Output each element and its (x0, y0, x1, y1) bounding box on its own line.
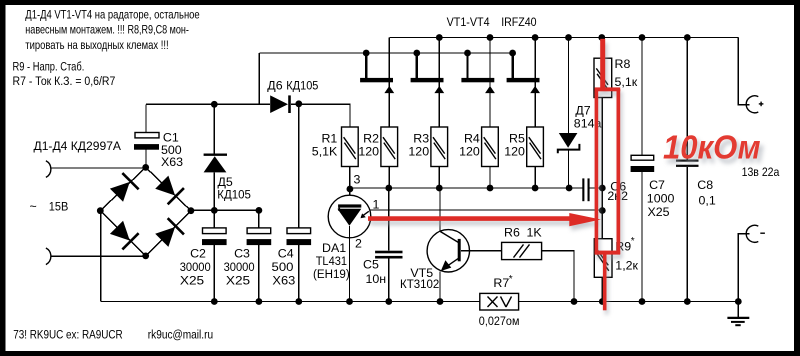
diode D5 (204, 155, 227, 173)
wire bottom ground rail right part (519, 301, 739, 303)
svg-text:120: 120 (358, 145, 379, 159)
wire C8 bottom lead (686, 167, 688, 302)
svg-text:5,1к: 5,1к (615, 75, 638, 89)
wire C4 top lead from D6 node (298, 104, 300, 228)
svg-text:2: 2 (355, 237, 362, 251)
svg-text:3: 3 (354, 172, 361, 186)
wire C6 right to R8R9 node (589, 187, 602, 189)
wire VT2 gate (416, 53, 418, 78)
node drain rail C7 (639, 34, 646, 41)
wire main rectified node y104 (146, 103, 270, 105)
node D6 cathode (295, 100, 302, 107)
svg-text:1: 1 (373, 197, 380, 211)
svg-text:R5: R5 (509, 132, 525, 146)
capacitor C2 (202, 228, 227, 245)
capacitor C1 (134, 133, 159, 150)
wire AC input top (51, 167, 146, 169)
svg-text:X25: X25 (648, 205, 670, 219)
wire C1 top lead (145, 104, 147, 132)
node ref rail VT5 base (436, 185, 443, 192)
node gate rail VT4 (509, 50, 516, 57)
node ref rail D7 (566, 185, 573, 192)
svg-text:(ЕН19): (ЕН19) (313, 267, 350, 281)
resistor R3 (431, 127, 448, 167)
node C3 top (256, 207, 263, 214)
node ref rail C5 (385, 185, 392, 192)
node drain rail C8 (684, 34, 691, 41)
wire VT4 source to R5 (534, 82, 536, 127)
wire R5 bottom (534, 167, 536, 189)
wire plus output (738, 38, 749, 105)
node bridge right (188, 207, 195, 214)
wire gate rail (259, 52, 512, 54)
svg-text:*: * (509, 274, 513, 285)
svg-text:IRFZ40: IRFZ40 (501, 15, 536, 29)
wire C8 top lead (686, 38, 688, 160)
wire VT4 gate (511, 53, 513, 78)
output terminal minus (746, 225, 765, 242)
svg-text:~: ~ (30, 200, 37, 214)
resistor R2 (381, 127, 398, 167)
svg-text:0,1: 0,1 (699, 194, 716, 208)
svg-text:КД105: КД105 (286, 78, 318, 92)
wire node3 rail (350, 187, 583, 189)
diode bridge D1-D4 (100, 167, 191, 256)
op-amp DA1 TL431 (328, 189, 371, 238)
svg-text:15В: 15В (49, 200, 69, 214)
node gnd VT5 (437, 298, 444, 305)
wire D6 cathode to R1 top (291, 104, 350, 127)
wire minus output (738, 234, 749, 302)
wire C3 top lead (258, 210, 260, 228)
diode D6 (270, 95, 289, 113)
node gnd DA1 (346, 298, 353, 305)
MOSFET VT3 (461, 78, 495, 93)
MOSFET VT4 (507, 78, 540, 93)
capacitor C4 (287, 228, 312, 245)
svg-text:C8: C8 (697, 178, 713, 192)
svg-text:X63: X63 (272, 274, 295, 288)
wire bridge left corner down (100, 211, 102, 302)
wire VT1 drain (388, 38, 390, 79)
svg-text:Д6: Д6 (267, 78, 282, 92)
wire bridge right corner to C3 (191, 209, 259, 211)
wire R9 bottom lead (601, 277, 603, 301)
AC terminal bottom (46, 248, 51, 265)
svg-text:1,2к: 1,2к (615, 258, 638, 272)
node bridge bottom (142, 253, 149, 260)
diode D1 (top-left arm) (108, 173, 138, 203)
svg-text:R4: R4 (464, 132, 480, 146)
wire D7 top lead (568, 38, 570, 134)
wire DA1 cathode feedback (370, 209, 603, 211)
svg-text:C4: C4 (278, 247, 294, 261)
resistor R9 (594, 239, 612, 278)
svg-text:*: * (631, 236, 635, 247)
node drain rail VT2 (436, 34, 443, 41)
svg-text:Д7: Д7 (575, 103, 590, 117)
node gate rail VT3 (464, 50, 471, 57)
wire bridge edge bottom-left (100, 211, 145, 256)
wire C1 bottom lead (145, 150, 147, 168)
wire R6 right to shunt node (542, 251, 574, 302)
MOSFET VT2 (411, 78, 445, 93)
svg-text:R3: R3 (413, 132, 429, 146)
svg-text:X63: X63 (161, 155, 183, 169)
svg-text:R7: R7 (493, 276, 509, 290)
wire VT2 drain (438, 38, 440, 79)
zener D7 (558, 133, 580, 153)
diode D3 (bottom-left arm) (108, 219, 138, 249)
resistor R6 (502, 242, 542, 259)
capacitor C8 (676, 160, 699, 167)
svg-text:500: 500 (272, 260, 294, 274)
node gnd output (735, 298, 742, 305)
svg-text:R9 - Напр. Стаб.: R9 - Напр. Стаб. (13, 60, 85, 74)
svg-text:тировать на выходных клемах !!: тировать на выходных клемах !!! (25, 38, 168, 52)
wire VT3 drain (489, 38, 491, 79)
node drain rail D7 (565, 34, 572, 41)
node gnd C5 (385, 298, 392, 305)
annotation arrow (368, 213, 601, 226)
svg-text:C3: C3 (234, 247, 250, 261)
wire VT2 source to R3 (438, 82, 440, 127)
ground (727, 318, 749, 325)
svg-text:120: 120 (459, 145, 480, 159)
wire VT5 emitter lead (439, 271, 441, 301)
wire top drain rail (389, 37, 738, 39)
wire VT3 source to R4 (489, 82, 491, 127)
diode D4 (bottom-right arm) (154, 218, 184, 248)
svg-text:R1: R1 (321, 132, 337, 146)
wire VT3 gate (466, 53, 468, 78)
wire VT1 gate (365, 53, 367, 78)
node ref rail R5 (532, 185, 539, 192)
wire R3 bottom (438, 167, 440, 189)
node gnd C4 (295, 298, 302, 305)
wire gate rail riser (258, 53, 260, 104)
annotation right vertical (617, 89, 621, 254)
svg-text:X25: X25 (180, 274, 204, 288)
svg-text:5,1K: 5,1K (312, 145, 338, 159)
node divider feedback (599, 207, 606, 214)
node ref rail R4 (487, 185, 494, 192)
node bridge top (142, 164, 149, 171)
svg-text:C2: C2 (190, 247, 206, 261)
diode D2 (top-right arm) (154, 174, 184, 204)
wire bottom ground rail left part (101, 301, 480, 303)
capacitor C3 (247, 228, 272, 245)
svg-text:Д1-Д4 КД2997А: Д1-Д4 КД2997А (34, 139, 122, 153)
annotation line over R8 (600, 39, 605, 90)
svg-text:1K: 1K (527, 225, 543, 239)
svg-text:1000: 1000 (647, 192, 675, 206)
node gnd C2 (211, 298, 218, 305)
svg-text:навесным монтажем. !!! R8,R9,C: навесным монтажем. !!! R8,R9,C8 мон- (25, 23, 189, 37)
capacitor C5 (375, 251, 402, 259)
svg-text:TL431: TL431 (316, 254, 347, 268)
node gnd R9 (599, 298, 606, 305)
output terminal plus (746, 96, 763, 113)
svg-text:0,027ом: 0,027ом (479, 314, 520, 328)
annotation bar under R8 (595, 87, 621, 91)
annotation line through R9 (603, 251, 607, 310)
resistor R1 (342, 127, 359, 167)
wire bridge edge top-right (146, 167, 191, 210)
wire C4 bottom lead (298, 245, 300, 302)
svg-text:30000: 30000 (180, 260, 211, 274)
wire D5 to C2 (213, 172, 215, 228)
svg-text:120: 120 (408, 145, 429, 159)
wire DA1 anode lead (349, 226, 351, 302)
node bridge left (97, 207, 104, 214)
svg-text:Д1-Д4 VT1-VT4 на радаторе, ост: Д1-Д4 VT1-VT4 на радаторе, остальное (25, 8, 199, 22)
svg-text:КД105: КД105 (217, 188, 251, 202)
transistor VT5 (427, 230, 469, 272)
svg-text:C7: C7 (649, 178, 665, 192)
wire C3 bottom lead (258, 245, 260, 302)
wire C5 top lead (388, 188, 390, 251)
svg-text:R7 - Ток К.З. = 0,6/R7: R7 - Ток К.З. = 0,6/R7 (13, 74, 116, 88)
wire VT4 drain (534, 38, 536, 79)
svg-text:R8: R8 (615, 57, 631, 71)
node D5 anode top (211, 101, 218, 108)
svg-text:120: 120 (504, 145, 525, 159)
svg-text:R6: R6 (504, 225, 520, 239)
svg-text:X25: X25 (226, 274, 250, 288)
node divider C6 (599, 185, 606, 192)
node drain rail VT4 (532, 34, 539, 41)
capacitor C6 (582, 178, 589, 201)
wire bridge edge bottom-right (146, 211, 191, 256)
wire R8 top lead (601, 38, 603, 59)
shunt resistor R7 (480, 293, 519, 310)
node C2 top (211, 207, 218, 214)
annotation left vertical (595, 89, 599, 255)
svg-text:R2: R2 (363, 132, 379, 146)
resistor R8 (594, 58, 612, 97)
svg-text:10н: 10н (366, 272, 387, 286)
node gate rail VT2 (413, 50, 420, 57)
wire R4 bottom (489, 167, 491, 189)
wire bridge edge top-left (100, 167, 145, 210)
wire D5 top lead (213, 104, 215, 154)
svg-text:DA1: DA1 (322, 241, 346, 255)
wire R8 bottom lead to node (601, 98, 603, 239)
svg-text:73! RK9UC ex: RA9UCR: 73! RK9UC ex: RA9UCR (13, 327, 123, 341)
svg-text:VT1-VT4: VT1-VT4 (447, 15, 490, 29)
wire VT1 source to R2 (388, 82, 390, 127)
svg-text:rk9uc@mail.ru: rk9uc@mail.ru (148, 327, 213, 341)
node gate rail VT1 (363, 50, 370, 57)
wire C5 bottom lead (388, 258, 390, 301)
svg-text:КТ3102: КТ3102 (400, 277, 439, 291)
svg-text:30000: 30000 (224, 260, 255, 274)
node drain rail VT3 (487, 34, 494, 41)
wire R2 bottom (388, 167, 390, 189)
svg-text:C5: C5 (363, 258, 379, 272)
wire R1 bottom to DA1 (349, 167, 351, 196)
wire AC input bottom (51, 255, 146, 257)
node gnd C3 (256, 298, 263, 305)
capacitor C7 (631, 155, 655, 172)
wire C7 bottom lead (641, 172, 643, 302)
AC terminal top (46, 161, 51, 178)
node ref rail R1 DA1 (347, 186, 354, 193)
node gnd R6 (571, 298, 578, 305)
wire C7 top lead (641, 38, 643, 156)
wire VT5 base lead (439, 188, 441, 231)
node drain rail R8 (598, 34, 605, 41)
node gnd C8 (684, 298, 691, 305)
annotation bar into R9 (595, 251, 621, 255)
wire C2 bottom lead (213, 245, 215, 302)
wire ground stub (737, 302, 739, 318)
MOSFET VT1 (360, 78, 394, 93)
resistor R4 (482, 127, 499, 167)
wire D7 bottom lead (568, 151, 570, 189)
svg-text:10кОм: 10кОм (663, 129, 761, 166)
resistor R5 (527, 127, 544, 167)
node gnd C7 (639, 298, 646, 305)
wire VT5 collector to R6 (461, 250, 502, 252)
